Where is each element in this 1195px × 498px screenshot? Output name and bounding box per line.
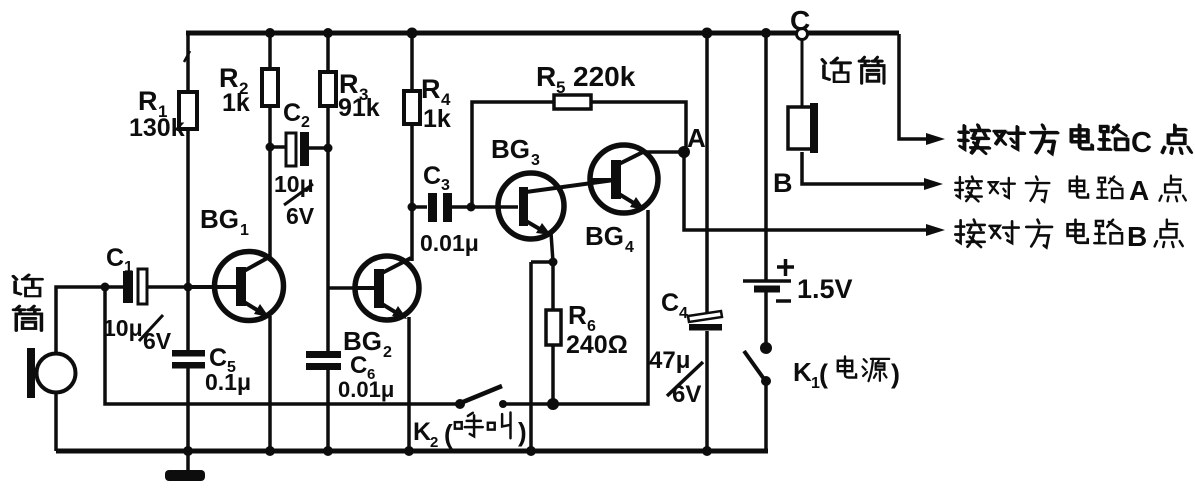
switch K2 left contact xyxy=(455,399,465,409)
junction node A xyxy=(678,146,690,158)
junction bottom bus BG3 emitter xyxy=(526,446,536,456)
wire input node down to K2 left contact xyxy=(105,287,459,404)
switch K2 lever xyxy=(463,386,502,402)
svg-text:1: 1 xyxy=(240,222,249,239)
wire BG4 collector to node A xyxy=(644,150,684,154)
svg-text:0.01μ: 0.01μ xyxy=(420,230,479,256)
capacitor C2 xyxy=(286,132,309,166)
label microphone huatong left xyxy=(13,275,42,331)
junction input node at C1 left xyxy=(101,283,110,292)
junction top bus R4 xyxy=(407,28,418,39)
transistor BG1 xyxy=(188,252,284,452)
label C4 47u 6V xyxy=(649,289,703,408)
label C2 10u 6V xyxy=(274,99,315,229)
wire R5 feedback loop right to node A xyxy=(591,102,686,150)
wire battery branch xyxy=(764,33,768,451)
wire top supply bus xyxy=(186,31,899,36)
junction BG1 base node xyxy=(184,283,193,292)
resistor R1 xyxy=(179,92,197,129)
transistor BG2 xyxy=(354,256,419,451)
junction bottom bus BG1 emitter xyxy=(265,446,275,456)
junction bottom bus C5 xyxy=(183,446,193,456)
junction top bus R2 xyxy=(265,28,275,38)
svg-text:K: K xyxy=(793,357,812,387)
junction top bus battery xyxy=(761,28,771,38)
label R5 220k xyxy=(536,61,636,97)
svg-text:B: B xyxy=(773,168,793,198)
label C1 10u 6V xyxy=(103,244,172,354)
svg-text:): ) xyxy=(891,359,900,389)
svg-text:3: 3 xyxy=(531,152,540,169)
wire C4 branch xyxy=(705,33,709,451)
junction top bus R3 xyxy=(323,28,333,38)
wire bottom ground bus xyxy=(56,449,768,454)
wire node A to opposite circuit (arrow line B) xyxy=(684,150,932,230)
junction R6 bottom node xyxy=(547,398,559,410)
svg-text:2: 2 xyxy=(430,434,438,451)
label BG1 xyxy=(200,204,249,239)
wire R4 branch xyxy=(410,33,414,261)
capacitor C5 xyxy=(172,350,205,369)
svg-text:220k: 220k xyxy=(573,61,636,92)
arrowhead line A xyxy=(924,178,943,190)
label battery minus xyxy=(776,299,791,303)
label arrow text line A xyxy=(955,175,1186,206)
svg-text:4: 4 xyxy=(625,239,634,256)
transistor BG4 xyxy=(590,145,658,213)
wire earphone top lead xyxy=(801,39,804,107)
wire R5 feedback loop left xyxy=(472,102,554,207)
resistor R4 xyxy=(404,91,420,124)
wire point C to opposite circuit (arrow line C) xyxy=(899,34,932,139)
svg-text:10μ: 10μ xyxy=(274,171,314,197)
capacitor C6 xyxy=(306,351,341,370)
label C5 0.1u xyxy=(205,344,251,395)
svg-text:BG: BG xyxy=(585,221,624,251)
svg-text:C: C xyxy=(209,344,227,372)
switch K1 lever xyxy=(744,351,764,379)
svg-text:4: 4 xyxy=(679,305,688,322)
wire microphone bottom lead xyxy=(54,392,58,451)
svg-text:BG: BG xyxy=(491,134,530,164)
switch K1 bottom contact xyxy=(761,376,771,386)
capacitor C1 xyxy=(123,269,147,304)
svg-text:240Ω: 240Ω xyxy=(566,331,628,359)
svg-text:R: R xyxy=(421,74,441,104)
svg-text:C: C xyxy=(790,5,810,36)
label BG4 xyxy=(585,221,634,256)
wire C1 to BG1 base node xyxy=(147,285,188,289)
switch K1 top contact xyxy=(760,342,772,354)
resistor R2 xyxy=(262,69,278,106)
label arrow text line B xyxy=(955,220,1182,252)
label battery plus xyxy=(777,259,794,276)
svg-text:A: A xyxy=(687,123,706,153)
arrowhead line B xyxy=(926,224,945,236)
label R4 1k xyxy=(421,74,451,133)
junction bottom bus C6 xyxy=(323,446,333,456)
battery 1.5V plates xyxy=(743,281,791,289)
svg-text:91k: 91k xyxy=(338,94,380,122)
wire R2 collector branch xyxy=(268,33,272,258)
label R2 1k xyxy=(219,63,250,117)
junction C3 left node xyxy=(408,203,417,212)
svg-text:5: 5 xyxy=(556,78,565,97)
junction BG3 emitter node xyxy=(549,258,558,267)
svg-text:10μ: 10μ xyxy=(103,315,143,341)
svg-text:(: ( xyxy=(444,419,453,449)
label BG2 xyxy=(343,326,392,361)
wire R6 leads xyxy=(551,262,555,404)
svg-text:6V: 6V xyxy=(672,381,701,408)
svg-text:R: R xyxy=(138,86,158,116)
wire microphone top lead xyxy=(56,287,123,355)
junction bottom bus BG2 emitter xyxy=(404,446,414,456)
wire R3 base branch xyxy=(328,33,354,451)
ground symbol xyxy=(165,451,205,481)
arrowhead line C xyxy=(926,133,945,145)
label C6 0.01u xyxy=(338,352,394,402)
svg-text:1k: 1k xyxy=(222,89,250,117)
wire C3 leads xyxy=(412,205,518,209)
capacitor C3 xyxy=(428,193,452,222)
svg-text:R: R xyxy=(536,61,556,92)
junction C3 right node xyxy=(467,203,476,212)
label C3 0.01u xyxy=(420,162,479,256)
svg-text:2: 2 xyxy=(301,114,310,131)
svg-text:C: C xyxy=(423,162,441,190)
label R3 91k xyxy=(338,69,380,122)
junction bottom bus C4 xyxy=(702,446,712,456)
svg-text:3: 3 xyxy=(441,177,450,194)
label K1 power switch xyxy=(793,357,900,393)
svg-text:47μ: 47μ xyxy=(649,347,690,374)
node C open terminal xyxy=(797,29,808,40)
transistor BG3 xyxy=(498,173,614,239)
svg-text:B: B xyxy=(1127,221,1147,252)
svg-text:0.1μ: 0.1μ xyxy=(205,369,251,395)
svg-text:C: C xyxy=(1131,127,1152,159)
resistor R3 xyxy=(320,72,336,106)
wire K2 right contact to BG4 emitter xyxy=(503,210,648,404)
svg-text:C: C xyxy=(350,352,367,379)
svg-text:0.01μ: 0.01μ xyxy=(338,377,394,402)
microphone symbol xyxy=(27,348,76,398)
resistor R5 xyxy=(554,95,591,109)
label K2 call switch xyxy=(413,413,527,451)
label arrow text line C xyxy=(958,125,1191,159)
junction top bus C4 xyxy=(702,28,713,39)
label R6 240ohm xyxy=(566,300,628,359)
svg-text:A: A xyxy=(1129,175,1149,206)
svg-text:1.5V: 1.5V xyxy=(797,274,853,304)
capacitor C4 xyxy=(688,311,722,331)
junction C2 right node xyxy=(324,144,333,153)
svg-text:BG: BG xyxy=(200,204,239,234)
svg-text:): ) xyxy=(518,417,527,447)
wire R1 branch xyxy=(184,33,190,451)
svg-text:C: C xyxy=(106,244,124,272)
label BG3 xyxy=(491,134,540,169)
wire BG3 emitter chain xyxy=(531,233,553,451)
svg-text:R: R xyxy=(568,300,587,330)
label earphone huatong right xyxy=(822,57,884,83)
svg-text:1k: 1k xyxy=(423,105,451,133)
label R1 130k xyxy=(129,86,185,142)
svg-text:130k: 130k xyxy=(129,114,185,142)
svg-text:6V: 6V xyxy=(143,328,172,354)
svg-text:C: C xyxy=(283,99,301,127)
svg-text:1: 1 xyxy=(124,259,133,276)
svg-text:C: C xyxy=(661,289,679,317)
earphone symbol xyxy=(788,103,818,153)
svg-text:K: K xyxy=(413,418,431,446)
wire earphone bottom to point B arrow line xyxy=(802,152,928,184)
svg-text:BG: BG xyxy=(343,326,382,356)
switch K2 right contact xyxy=(499,400,507,408)
svg-text:2: 2 xyxy=(383,344,392,361)
svg-text:6V: 6V xyxy=(286,203,315,229)
wire C2 leads xyxy=(270,147,328,148)
resistor R6 xyxy=(546,310,561,345)
svg-text:(: ( xyxy=(819,359,828,389)
junction C2 left node xyxy=(266,143,275,152)
